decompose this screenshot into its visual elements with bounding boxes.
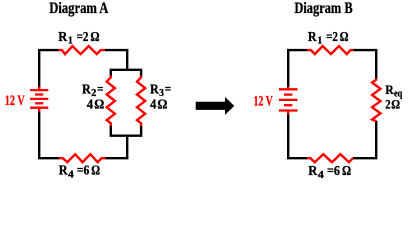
- svg-text:Ω: Ω: [391, 97, 400, 112]
- svg-text:Diagram B: Diagram B: [294, 0, 352, 17]
- svg-text:4: 4: [318, 170, 325, 181]
- battery B plate long 3: [279, 99, 298, 101]
- svg-text:12 V: 12 V: [254, 93, 274, 109]
- svg-text:Ω: Ω: [342, 164, 351, 179]
- wire A center drop to bottom: [126, 136, 128, 159]
- svg-text:Ω: Ω: [91, 164, 100, 179]
- svg-text:4: 4: [150, 98, 156, 113]
- svg-text:2: 2: [385, 97, 390, 112]
- wire A parallel bottom bar with stubs: [111, 126, 141, 136]
- svg-text:R: R: [308, 30, 317, 45]
- svg-text:12 V: 12 V: [5, 93, 25, 109]
- battery A plate long 3: [30, 98, 48, 100]
- svg-text:R: R: [308, 164, 318, 179]
- resistor R4 (diagram A) zigzag: [59, 154, 106, 162]
- battery A plate long 5: [30, 107, 48, 109]
- wire B right-bottom corner + bottom right segment: [353, 121, 377, 158]
- battery B top stub: [287, 87, 289, 89]
- wire A left-bottom corner + bottom left segment: [39, 112, 59, 159]
- svg-text:Ω: Ω: [157, 98, 167, 113]
- battery B plate long 5: [279, 109, 298, 111]
- svg-text:Diagram A: Diagram A: [49, 0, 108, 17]
- resistor R3 zigzag: [137, 76, 145, 127]
- svg-text:Ω: Ω: [94, 98, 104, 113]
- svg-text:=: =: [97, 82, 103, 97]
- wire B left + top-left corner: [288, 50, 307, 87]
- resistor Req zigzag: [372, 79, 380, 122]
- svg-text:Ω: Ω: [340, 30, 349, 45]
- svg-text:R: R: [59, 164, 69, 179]
- wire B left-bottom corner + bottom left segment: [288, 114, 307, 158]
- battery A plate short 2: [35, 93, 43, 95]
- svg-text:1: 1: [68, 36, 73, 47]
- wire A left + top-left corner: [39, 50, 58, 87]
- svg-text:=2: =2: [77, 30, 89, 45]
- battery A plate long 1: [30, 89, 48, 91]
- wire A top-right + corner down to parallel section: [105, 50, 127, 70]
- svg-text:Ω: Ω: [90, 30, 99, 45]
- battery B plate short 4: [284, 104, 292, 106]
- svg-text:R: R: [58, 30, 68, 45]
- battery A bottom stub: [38, 109, 40, 112]
- battery A plate short 4: [35, 102, 43, 104]
- resistor R4 (diagram B) zigzag: [307, 154, 353, 162]
- svg-text:4: 4: [87, 98, 93, 113]
- svg-text:=2: =2: [326, 30, 338, 45]
- svg-text:4: 4: [68, 170, 74, 181]
- svg-text:=: =: [165, 82, 171, 97]
- wire A bottom right segment: [106, 157, 129, 159]
- svg-text:=6: =6: [77, 164, 90, 179]
- battery B plate short 2: [284, 93, 292, 95]
- resistor R1 (diagram A) zigzag: [58, 46, 105, 54]
- svg-text:1: 1: [317, 36, 322, 47]
- resistor R2 zigzag: [107, 76, 115, 127]
- battery A top stub: [38, 87, 40, 90]
- svg-text:R: R: [385, 82, 394, 97]
- wire A parallel top bar with stubs: [111, 70, 141, 76]
- battery B bottom stub: [287, 111, 289, 114]
- arrow between diagrams: [196, 97, 235, 115]
- svg-text:=6: =6: [327, 164, 340, 179]
- resistor R1 (diagram B) zigzag: [307, 46, 353, 54]
- wire B top-right corner: [353, 50, 376, 79]
- battery B plate long 1: [279, 88, 298, 90]
